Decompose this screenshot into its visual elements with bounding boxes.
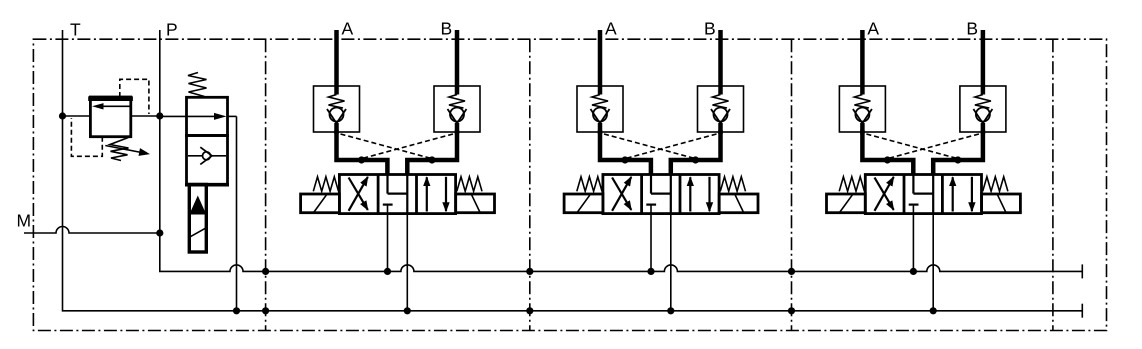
svg-text:M: M <box>17 211 32 231</box>
svg-text:T: T <box>70 19 81 39</box>
svg-text:P: P <box>166 19 178 39</box>
